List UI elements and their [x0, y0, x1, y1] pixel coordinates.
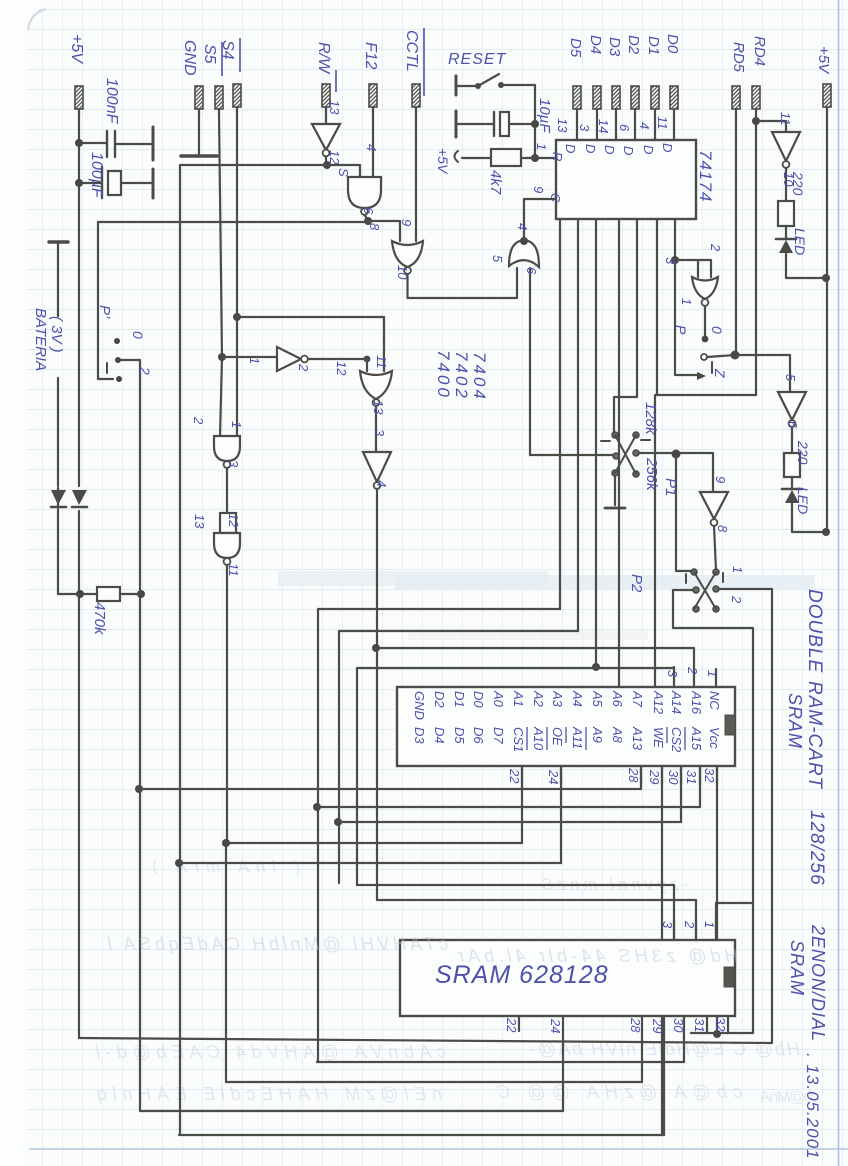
svg-text:5: 5 — [490, 255, 505, 263]
svg-text:CCTL: CCTL — [403, 30, 420, 72]
cart pin24 tick — [560, 766, 562, 784]
svg-text:29: 29 — [650, 1018, 665, 1033]
connector pin GND — [195, 86, 203, 115]
node 470k right junction — [137, 590, 145, 598]
svg-text:3: 3 — [665, 670, 680, 678]
svg-text:6: 6 — [524, 267, 539, 275]
svg-text:4: 4 — [374, 480, 389, 487]
node R/W net junction — [323, 161, 331, 169]
svg-text:13: 13 — [371, 400, 386, 415]
svg-text:2: 2 — [708, 243, 723, 252]
rail bar right of C2 — [152, 169, 155, 198]
svg-text:LED: LED — [795, 487, 811, 514]
cart pin22 tick — [521, 766, 523, 784]
svg-text:P1: P1 — [662, 478, 679, 496]
svg-text:128/256: 128/256 — [806, 810, 827, 886]
svg-text:A3: A3 — [550, 690, 565, 708]
svg-text:8: 8 — [715, 525, 730, 533]
cart pin30 tick — [680, 766, 682, 784]
node Q3 row668 junction — [592, 663, 600, 671]
svg-text:12: 12 — [226, 513, 241, 528]
wire row1062 — [317, 1061, 684, 1063]
wire x140 vertical — [139, 361, 141, 1111]
svg-text:1: 1 — [705, 670, 720, 677]
connector pin +5V (left) — [75, 86, 83, 115]
wire row863 to cart pin24 — [179, 862, 561, 864]
wire NOR10 out down-right — [408, 268, 518, 298]
LED D4 (LED2) — [782, 488, 802, 491]
connector pin F12 — [369, 84, 377, 113]
svg-text:24: 24 — [546, 769, 561, 784]
SRAM pin22 stub — [518, 1016, 520, 1031]
svg-text:R/W: R/W — [315, 42, 332, 75]
wire 74174 Q5 down to P1 — [614, 219, 637, 432]
wire LED2 to +5V rail — [792, 503, 827, 532]
node S5 inverter tap — [218, 353, 226, 361]
svg-text:D1: D1 — [645, 36, 662, 55]
svg-text:31: 31 — [692, 1018, 707, 1032]
wire NOR input bar — [675, 260, 711, 277]
SRAM pin1 tick — [715, 921, 717, 940]
svg-text:2: 2 — [296, 363, 311, 372]
svg-text:D2: D2 — [625, 35, 642, 55]
wire y221 right to NOR8 — [368, 221, 400, 241]
wire P1 right to node — [639, 452, 713, 454]
wire y221 left to x98 — [98, 221, 368, 223]
connector pin D0 — [670, 86, 678, 115]
svg-text:( 3V ): ( 3V ) — [48, 316, 65, 353]
svg-text:9: 9 — [399, 219, 414, 226]
svg-text:RD5: RD5 — [730, 42, 747, 73]
svg-text:2: 2 — [137, 366, 153, 375]
nand U2C input box 13,12 — [220, 513, 236, 533]
svg-text:RAM-CART: RAM-CART — [804, 681, 825, 789]
wire inverter2 to NOR12 — [308, 358, 368, 360]
wire S4 tap to NOR11 — [237, 317, 384, 371]
battery lead upper — [57, 244, 59, 316]
svg-text:2: 2 — [685, 666, 700, 675]
wire inverter8 to P2 — [714, 526, 716, 570]
node RD4 inverter tap — [752, 117, 760, 125]
jumper P2 cross — [694, 572, 716, 609]
IC U6 SRAM 628128 body — [400, 940, 735, 1016]
nor U4B body — [692, 277, 718, 299]
nor U4C body 12,11-13 — [360, 371, 392, 399]
svg-text:28: 28 — [626, 767, 641, 783]
wire row1137 — [0, 0, 1, 1]
battery top terminal bar — [49, 240, 68, 243]
capacitor C2 100uF lead left — [79, 182, 152, 184]
P1 ground bar — [605, 507, 625, 510]
svg-text:1: 1 — [730, 566, 745, 573]
node cart32 row1033 junction — [713, 1030, 721, 1038]
node P1 right junction — [672, 450, 681, 459]
svg-text:11: 11 — [226, 563, 241, 577]
wire RD4 tap to inverter — [756, 121, 786, 132]
jumper P1 tick right — [641, 439, 650, 441]
connector pin +5V (right) — [823, 84, 831, 113]
node S4 NOR11 tap — [233, 313, 241, 321]
svg-text:A8: A8 — [610, 726, 625, 744]
svg-text:D4: D4 — [587, 35, 604, 54]
svg-text:8: 8 — [367, 223, 382, 231]
svg-text:31: 31 — [684, 770, 699, 784]
wire row1033 — [691, 1032, 753, 1034]
node LED1 +5V junction — [822, 274, 830, 282]
wire inverter6 to R220b — [791, 427, 793, 453]
svg-text:OE: OE — [550, 727, 565, 746]
connector pin CCTL — [412, 84, 420, 113]
jumper P2 tick left — [685, 574, 687, 583]
inverter U3E 3-4 — [363, 452, 391, 482]
connector pin R/W — [322, 84, 330, 113]
wire cart pin30 drop — [680, 766, 682, 822]
inverter U3B 11-10 — [772, 132, 800, 161]
wire inverter 10 to R 220 — [785, 168, 787, 201]
wire NOR13 to inverter3 — [375, 406, 377, 452]
svg-text:3: 3 — [660, 921, 675, 929]
cart connector notch — [725, 715, 735, 735]
svg-text:P: P — [673, 325, 689, 335]
left ungridded strip — [0, 0, 27, 1166]
wire OR6 input long vertical — [529, 268, 531, 455]
reset switch lever — [478, 74, 499, 86]
svg-text:256k: 256k — [643, 457, 660, 492]
svg-text:3: 3 — [226, 460, 241, 468]
IC J1 cart connector body — [397, 687, 735, 766]
svg-text:100µF: 100µF — [88, 152, 105, 199]
wire RD4 route to cart top — [655, 219, 756, 687]
wire C3 right lead — [509, 123, 535, 125]
svg-text:128k: 128k — [642, 402, 659, 436]
svg-text:10µF: 10µF — [536, 98, 553, 133]
svg-text:10: 10 — [395, 265, 410, 280]
wire R/W pin down — [325, 113, 327, 124]
switch Z gap tick — [711, 362, 713, 373]
svg-text:A13: A13 — [630, 726, 645, 751]
capacitor C2 100uF plate box — [108, 171, 121, 195]
inverter U3C 5-6 — [778, 392, 806, 420]
wire D5 pin to 74174 — [576, 115, 578, 140]
IC U1 74174 body — [556, 140, 696, 219]
wire P2 mid-left route — [673, 590, 753, 1033]
wire 470k row — [58, 593, 141, 595]
svg-text:A2: A2 — [531, 690, 546, 708]
svg-text:1: 1 — [247, 357, 262, 364]
svg-text:2: 2 — [682, 920, 697, 929]
node +5V/100uF junction — [75, 179, 83, 187]
wire cart pin24 drop — [560, 766, 562, 863]
svg-text:470k: 470k — [91, 602, 108, 636]
wire RD4 vertical — [755, 115, 757, 395]
svg-text:SRAM: SRAM — [785, 693, 805, 749]
wire y165 right to NAND S input — [327, 165, 360, 177]
wire reset to vertical — [501, 85, 535, 124]
wire NOR1 out to contact 0 — [704, 306, 706, 337]
svg-text:1: 1 — [702, 921, 717, 928]
node reset contact right — [498, 82, 504, 88]
capacitor C3 plate box — [500, 112, 509, 136]
node x180 row863 junction — [175, 859, 183, 867]
svg-text:R: R — [550, 152, 565, 161]
node LED2 +5V junction — [822, 528, 830, 536]
svg-text:WE: WE — [651, 727, 666, 748]
svg-text:cAbnVA @AHVd4 CAEb@d-l: cAbnVA @AHVd4 CAEb@d-l — [95, 1042, 446, 1062]
svg-text:11: 11 — [655, 116, 670, 130]
wire row631 — [339, 630, 578, 632]
svg-text:D5: D5 — [452, 727, 467, 744]
svg-text:CS2: CS2 — [669, 727, 684, 753]
wire P2 mid-right route — [719, 588, 772, 590]
svg-text:Z: Z — [712, 368, 728, 378]
wire +5V rail left vertical — [78, 112, 80, 1038]
svg-text:nEl@zM HAHEcdlE EAHnlq: nEl@zM HAHEcdlE EAHnlq — [97, 1084, 442, 1104]
wire OR4 to 74174 C pin — [524, 199, 556, 240]
svg-text:D3: D3 — [412, 727, 427, 744]
svg-text:cTAHVHl @MnlbH CAdEqbSA l: cTAHVHl @MnlbH CAdEqbSA l — [107, 934, 448, 954]
svg-text:13: 13 — [327, 100, 342, 115]
wire RD5 vertical — [735, 115, 737, 355]
wire GND pin down — [198, 112, 200, 154]
switch P' gap tick — [106, 363, 108, 373]
nor U4A body — [392, 241, 423, 267]
svg-text:D3: D3 — [606, 37, 623, 57]
wire 74174 Q7 down to Z switch — [674, 219, 676, 260]
svg-text:+5V: +5V — [68, 34, 85, 64]
svg-text:+5V: +5V — [815, 46, 832, 75]
wire LED1 to +5V rail — [786, 253, 827, 278]
svg-text:12: 12 — [334, 361, 349, 376]
svg-text:RESET: RESET — [448, 51, 507, 68]
connector pin S4 — [233, 84, 241, 113]
wire row668 A14 net — [357, 667, 674, 940]
svg-text:74174: 74174 — [696, 150, 715, 202]
node P' contact 2 — [116, 376, 122, 382]
svg-text:D6: D6 — [471, 727, 486, 744]
node x339 row822 junction — [334, 818, 342, 826]
svg-text:32: 32 — [713, 1017, 728, 1032]
svg-text:7400: 7400 — [434, 350, 453, 400]
wire diode D1 to 470k row — [57, 510, 59, 594]
wire P1 bottom stub — [614, 476, 616, 505]
wire 74174 Q3 down to row668 — [595, 219, 597, 667]
svg-text:D: D — [602, 145, 617, 154]
svg-text:4k7: 4k7 — [487, 170, 504, 195]
inverter U3A 13-12 — [312, 124, 340, 150]
svg-text:D7: D7 — [491, 727, 506, 744]
svg-text:3: 3 — [372, 429, 387, 437]
svg-text:A12: A12 — [651, 690, 666, 715]
bleed-through mirrored handwriting from reverse page — [95, 857, 820, 1106]
resistor R2 220 — [778, 201, 794, 226]
capacitor C1 100nF leads — [79, 143, 152, 144]
wire SRAM pin32 drop — [727, 1016, 729, 1033]
wire Z common to RD5 and inverter5 — [707, 355, 790, 392]
svg-text:A0: A0 — [491, 690, 506, 708]
svg-text:12: 12 — [327, 150, 342, 165]
wire P' bottom contact stub — [98, 378, 113, 380]
node NAND6 junction — [364, 217, 372, 225]
svg-text:D0: D0 — [664, 34, 681, 54]
wire row900 to SRAM pin2 — [377, 900, 696, 940]
eraser smudge bands — [278, 571, 548, 586]
svg-text:22: 22 — [504, 1017, 519, 1033]
wire D1 pin to 74174 — [654, 115, 656, 140]
svg-text:13: 13 — [555, 118, 570, 133]
capacitor C2 100uF plate thin — [101, 167, 103, 198]
wire F12 pin down to NAND — [372, 110, 374, 177]
wire cart pin29 long drop — [661, 766, 663, 1135]
svg-text:2: 2 — [191, 416, 206, 425]
svg-text:A14: A14 — [669, 690, 684, 714]
svg-text:22: 22 — [507, 768, 522, 784]
svg-text:D2: D2 — [432, 691, 447, 708]
svg-text:S: S — [336, 168, 351, 177]
wire Z lever from Q7 line — [675, 260, 697, 375]
svg-text:D: D — [621, 146, 636, 155]
svg-text:100nF: 100nF — [103, 78, 120, 125]
svg-text:RD4: RD4 — [751, 36, 768, 66]
svg-text:9: 9 — [713, 476, 728, 483]
node P' contact mid — [115, 357, 121, 363]
node Q7 NOR3 junction — [671, 256, 679, 264]
svg-text:D4: D4 — [432, 727, 447, 744]
or U5A body — [509, 240, 539, 267]
wire SRAM pin24 drop — [562, 1016, 564, 1111]
wire 74174 Q1 down to row609 — [559, 219, 561, 609]
wire +5V right rail — [826, 113, 828, 532]
node 470k left junction — [76, 590, 84, 598]
wire node down to P2 left — [676, 454, 692, 571]
jumper P1 contacts — [612, 432, 618, 438]
svg-text:P’: P’ — [96, 305, 113, 319]
svg-text:LED: LED — [792, 228, 808, 255]
svg-text:D: D — [641, 145, 656, 154]
LED D3 (LED1) — [776, 238, 796, 241]
connector pin D4 — [593, 86, 601, 115]
svg-text:24: 24 — [548, 1018, 563, 1033]
diode D1 (battery) — [57, 488, 59, 508]
svg-text:A4: A4 — [570, 690, 585, 707]
wire NAND3 to input box — [226, 468, 228, 513]
ground bar — [181, 154, 217, 158]
wire row1040 +5V bottom — [79, 1038, 772, 1043]
svg-text:D: D — [660, 143, 675, 152]
connector pin D2 — [631, 86, 639, 115]
battery lead lower — [57, 378, 59, 486]
inverter U3D 1-2 — [277, 347, 301, 371]
bleed-through overlay rows — [107, 934, 738, 966]
svg-text:A16: A16 — [689, 690, 704, 715]
wire reset vertical to R line — [534, 124, 536, 158]
svg-text:1: 1 — [534, 143, 549, 150]
svg-text:28: 28 — [628, 1017, 643, 1033]
svg-text:7404: 7404 — [470, 352, 489, 402]
wire S5 tap to inverter1 — [222, 356, 276, 358]
switch Z contact circle — [701, 354, 707, 360]
svg-text:P2: P2 — [628, 574, 645, 593]
connector pin D5 — [573, 86, 581, 115]
svg-text:NC: NC — [707, 691, 722, 710]
svg-text:29: 29 — [647, 769, 662, 784]
nand U2B body 2,1-3 — [214, 436, 240, 461]
wire row609 — [318, 608, 560, 610]
SRAM pin3 tick — [673, 921, 675, 940]
wire x772 right-side vertical — [771, 589, 773, 1043]
wire row1082 — [226, 1081, 642, 1083]
svg-text:6: 6 — [785, 421, 800, 429]
wire R220b to LED2 — [791, 477, 793, 489]
right blue margin line — [838, 0, 840, 1166]
svg-text:A15: A15 — [689, 726, 704, 751]
svg-text:3: 3 — [663, 257, 678, 265]
node reset/C3 junction — [531, 120, 539, 128]
svg-text:SRAM: SRAM — [787, 940, 807, 996]
wire P' mid contact to x140 — [121, 359, 140, 361]
svg-text:4: 4 — [515, 223, 530, 230]
node P' contact 0 — [114, 338, 120, 344]
wire NAND out to node — [365, 215, 369, 220]
capacitor C3 10uF left bar — [455, 111, 458, 137]
svg-text:S5: S5 — [201, 44, 218, 64]
svg-text:11: 11 — [374, 355, 389, 369]
node Z RD5 junction — [731, 351, 740, 360]
svg-text:Vcc: Vcc — [707, 727, 722, 749]
wire C3 left lead — [456, 123, 493, 125]
wire cart pin31 drop — [699, 766, 701, 807]
wire P2 branch to SRAM pin1 — [716, 903, 753, 940]
wire S4 vertical — [236, 110, 238, 436]
jumper P2 contacts — [691, 569, 697, 575]
switch Z lever arrowhead — [697, 372, 706, 380]
wire x339 vertical — [338, 631, 340, 883]
connector pin RD4 — [752, 86, 760, 115]
svg-text:A9: A9 — [590, 726, 605, 743]
svg-text:BATERIA: BATERIA — [32, 308, 49, 371]
node x140 row789 junction — [135, 785, 143, 793]
svg-text:2ENON/DIAL: 2ENON/DIAL — [808, 924, 828, 1042]
capacitor C3 plate — [493, 112, 495, 136]
svg-text:C: C — [548, 193, 563, 203]
svg-text:Hd@ z3HS 44-blr 4l.bAr: Hd@ z3HS 44-blr 4l.bAr — [457, 946, 738, 966]
wire row789 to cart pin28 — [139, 788, 641, 790]
svg-text:D1: D1 — [452, 691, 467, 708]
SRAM notch — [724, 967, 734, 987]
wire cart pin32 long drop — [716, 766, 718, 1033]
svg-text:30: 30 — [666, 770, 681, 785]
node OR4 output junction — [520, 237, 528, 245]
cart pin32 tick — [716, 766, 718, 784]
svg-text:GND: GND — [412, 691, 427, 720]
node reset/R junction — [531, 154, 539, 162]
svg-text:32: 32 — [702, 768, 717, 783]
cart pin31 tick — [699, 766, 701, 784]
svg-text:0: 0 — [709, 326, 725, 334]
SRAM pin2 tick — [695, 921, 697, 940]
svg-text:9: 9 — [531, 186, 546, 193]
wire SRAM pin28 drop — [641, 1016, 643, 1082]
cart pin1 NC tick — [715, 669, 717, 687]
connector pin D1 — [651, 86, 659, 115]
svg-text:D: D — [583, 144, 598, 153]
wire 74174 Q4 down to cart top — [618, 219, 620, 687]
svg-text:0: 0 — [130, 331, 146, 339]
svg-text:+5V: +5V — [435, 148, 451, 175]
wire D2 pin to 74174 — [634, 115, 636, 140]
jumper P1 cross — [615, 435, 636, 474]
wire row1113 — [140, 1110, 563, 1112]
svg-text:A6: A6 — [610, 690, 625, 708]
